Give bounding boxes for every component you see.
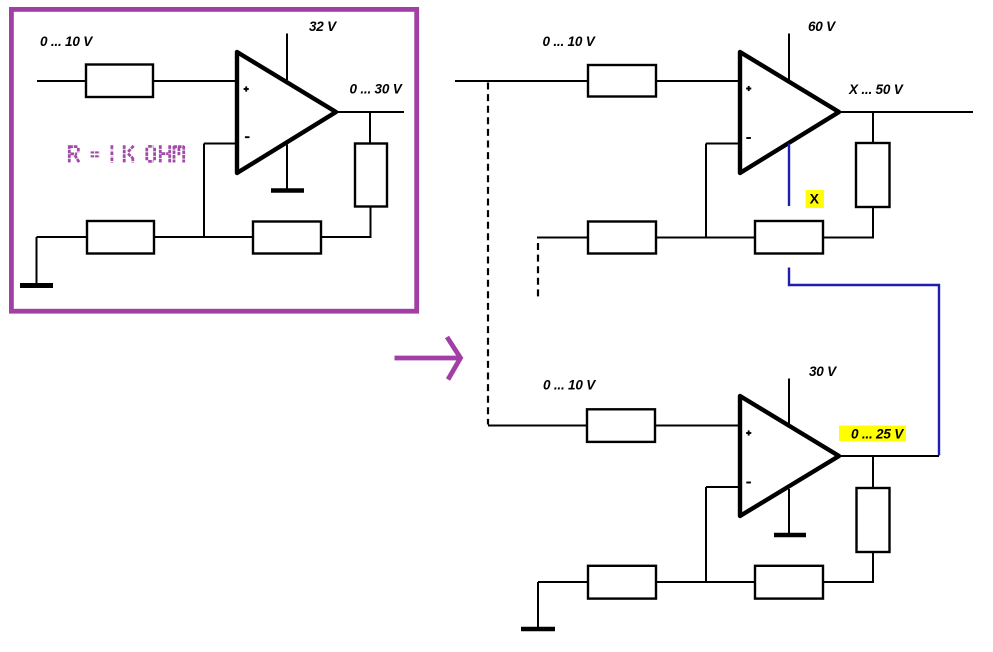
wire: bottom ground stem: [537, 582, 539, 627]
value label R = 1 K OHM (LCD style): [69, 145, 184, 162]
resistor R5: [588, 65, 656, 97]
svg-text:0 ... 10 V: 0 ... 10 V: [543, 378, 596, 393]
svg-text:30 V: 30 V: [809, 364, 837, 379]
wire: 30V supply: [788, 379, 790, 428]
resistor R3: [87, 221, 154, 254]
wire: U1 minus input: [204, 143, 237, 145]
svg-text:0 ... 10 V: 0 ... 10 V: [40, 34, 93, 49]
ground (under U1): [271, 188, 304, 193]
resistor R11: [588, 566, 656, 599]
blue wire node X: [788, 144, 790, 207]
U1 plus input label: [244, 86, 249, 91]
wire: left ground stem: [36, 237, 38, 284]
ground (bottom left): [521, 627, 555, 632]
arrow (transform): [395, 337, 461, 380]
wire: feedback down U2: [705, 144, 707, 239]
svg-text:60 V: 60 V: [808, 19, 836, 34]
wire: R4 to R2 bottom: [321, 206, 371, 237]
U1 minus input label: [245, 136, 250, 138]
wire: bottom right input: [488, 425, 589, 427]
resistor R4: [253, 222, 321, 254]
op-amp U2: [740, 52, 839, 173]
resistor R9: [587, 409, 655, 442]
wire: output down to R2: [369, 112, 371, 144]
resistor R8: [755, 221, 823, 254]
op-amp U1: [237, 52, 336, 173]
wire: U1 ground stem: [286, 145, 288, 190]
output highlight 0 ... 25 V: [839, 426, 906, 442]
wire: R5 to op-amp: [656, 80, 740, 82]
resistor R7: [588, 222, 656, 254]
wire: R1 to op-amp: [153, 80, 237, 82]
wire: R12 to R10 bottom: [823, 552, 873, 582]
dashed stub wire: [537, 243, 539, 299]
op-amp U3: [740, 396, 839, 516]
resistor R12: [755, 566, 823, 599]
wire: R8 to R6 bottom: [823, 206, 873, 238]
ground (left): [20, 283, 53, 288]
U2 minus input label: [746, 137, 751, 139]
dashed wire (input tie line): [487, 83, 489, 425]
svg-text:X: X: [810, 190, 820, 206]
svg-text:32 V: 32 V: [309, 19, 337, 34]
wire: stub to R7: [537, 237, 590, 239]
wire: feedback down U3: [705, 487, 707, 583]
wire: 60V supply: [788, 34, 790, 81]
wire: left input to R1: [37, 80, 88, 82]
svg-text:X ... 50 V: X ... 50 V: [848, 82, 904, 97]
wire: U3 ground stem: [788, 489, 790, 533]
wire: U2 minus input: [706, 143, 740, 145]
node X highlight: [806, 190, 825, 208]
blue jumper wire: [789, 268, 939, 456]
wire: U3 output: [841, 455, 939, 457]
wire: bottom left to R3: [37, 236, 89, 238]
wire: 32V supply: [286, 34, 288, 81]
svg-text:0 ... 10 V: 0 ... 10 V: [543, 34, 596, 49]
wire: output down to R6: [872, 112, 874, 143]
resistor R10: [857, 488, 890, 552]
resistor R2: [355, 144, 387, 207]
resistor R1: [86, 65, 153, 98]
wire: U2 output: [841, 111, 973, 113]
U3 minus input label: [746, 482, 751, 484]
wire: output down to R10: [872, 456, 874, 488]
wire: bottom left to R11: [538, 581, 589, 583]
wire: R7 to R8: [656, 237, 756, 239]
wire: U1 output: [338, 111, 404, 113]
wire: R9 to op-amp: [655, 425, 740, 427]
wire: top right input: [455, 80, 590, 82]
wire: U3 minus input: [706, 486, 740, 488]
U2 plus input label: [746, 86, 751, 91]
wire: R11 to R12: [656, 581, 756, 583]
wire: feedback down: [203, 144, 205, 239]
svg-text:0 ... 30 V: 0 ... 30 V: [350, 82, 403, 97]
purple frame: [11, 9, 416, 311]
U3 plus input label: [746, 430, 751, 435]
svg-text:0 ... 25 V: 0 ... 25 V: [851, 427, 904, 442]
wire: R3 to R4: [154, 236, 254, 238]
resistor R6: [856, 143, 890, 207]
ground (under U3): [774, 533, 806, 538]
